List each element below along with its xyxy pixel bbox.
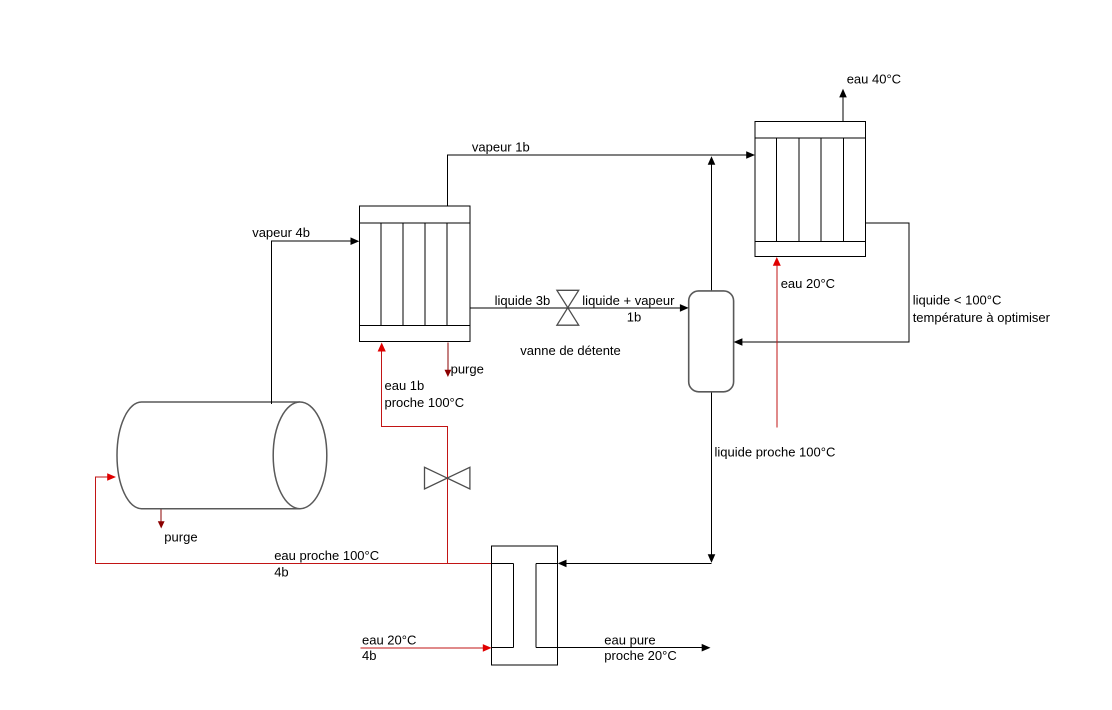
svg-text:1b: 1b <box>627 309 641 324</box>
svg-text:vanne de détente: vanne de détente <box>520 343 620 358</box>
svg-text:eau 40°C: eau 40°C <box>847 72 901 87</box>
svg-text:eau 20°C: eau 20°C <box>362 633 416 648</box>
svg-text:eau 1b: eau 1b <box>385 378 425 393</box>
svg-text:vapeur 1b: vapeur 1b <box>472 140 530 155</box>
svg-text:proche 100°C: proche 100°C <box>385 395 465 410</box>
svg-text:liquide proche 100°C: liquide proche 100°C <box>715 444 836 459</box>
svg-text:température à optimiser: température à optimiser <box>913 310 1051 325</box>
svg-text:4b: 4b <box>362 648 376 663</box>
svg-text:liquide + vapeur: liquide + vapeur <box>582 293 675 308</box>
svg-text:eau proche 100°C: eau proche 100°C <box>274 548 379 563</box>
svg-text:eau 20°C: eau 20°C <box>781 276 835 291</box>
svg-text:liquide < 100°C: liquide < 100°C <box>913 293 1002 308</box>
svg-text:purge: purge <box>451 361 484 376</box>
svg-text:eau pure: eau pure <box>604 633 655 648</box>
svg-text:4b: 4b <box>274 565 288 580</box>
svg-text:proche 20°C: proche 20°C <box>604 648 676 663</box>
svg-text:liquide 3b: liquide 3b <box>495 293 551 308</box>
svg-text:purge: purge <box>164 530 197 545</box>
svg-text:vapeur 4b: vapeur 4b <box>252 225 310 240</box>
